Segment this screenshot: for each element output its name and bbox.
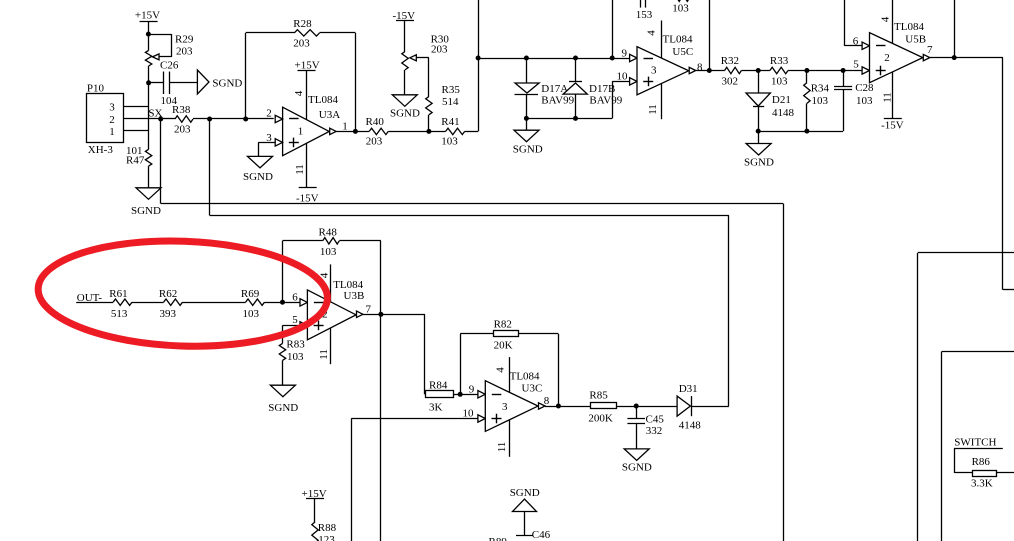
- pin 5 arrow: [300, 322, 307, 329]
- resistor R35: [426, 84, 461, 115]
- svg-text:R86: R86: [972, 456, 991, 468]
- wire pin11: [294, 143, 307, 187]
- svg-text:123: 123: [318, 534, 335, 541]
- svg-text:R84: R84: [429, 379, 448, 391]
- resistor R38: [172, 104, 193, 135]
- svg-text:11: 11: [647, 104, 659, 115]
- node C45 top: [634, 404, 639, 409]
- svg-text:R61: R61: [109, 288, 127, 300]
- svg-text:R40: R40: [366, 116, 385, 128]
- wire: [336, 131, 369, 133]
- resistor R84: [426, 379, 454, 413]
- wire R28 feedback left: [246, 33, 295, 120]
- wire U3B out down: [380, 314, 382, 541]
- node D21 bottom: [756, 129, 761, 134]
- resistor R33: [770, 55, 789, 88]
- node D17B bottom: [573, 116, 578, 121]
- svg-text:11: 11: [882, 92, 894, 103]
- wire: [404, 21, 406, 52]
- svg-text:2: 2: [884, 52, 890, 64]
- svg-text:4: 4: [646, 30, 658, 36]
- svg-text:SGND: SGND: [513, 144, 543, 156]
- wire: [363, 314, 425, 316]
- power +15V (R29 top): [135, 9, 160, 21]
- svg-text:4148: 4148: [679, 420, 702, 432]
- svg-text:7: 7: [927, 44, 933, 56]
- wire pin4 stub: [319, 264, 331, 302]
- wire: [741, 70, 770, 72]
- wire pin1: [124, 130, 149, 132]
- wire: [954, 448, 1003, 473]
- resistor R88: [312, 522, 337, 541]
- svg-text:R88: R88: [318, 522, 337, 534]
- svg-text:U5B: U5B: [905, 34, 926, 46]
- wire: [806, 71, 808, 132]
- pin 5 label: [853, 58, 859, 70]
- node rail junction: [476, 56, 481, 61]
- wire: [148, 66, 150, 149]
- wire pin4: [293, 71, 307, 120]
- svg-text:1: 1: [342, 120, 348, 132]
- svg-text:SGND: SGND: [622, 461, 652, 473]
- svg-text:R89: R89: [489, 536, 508, 541]
- svg-text:103: 103: [672, 2, 689, 14]
- wire R82 left: [460, 334, 493, 395]
- pin 5 arrow: [862, 67, 869, 74]
- pin 6 label: [292, 292, 298, 304]
- node D17B top: [573, 56, 578, 61]
- node C26 junction: [146, 80, 151, 85]
- wire: [282, 360, 284, 385]
- block boundary A: [918, 253, 1014, 541]
- svg-text:103: 103: [441, 136, 458, 148]
- wire pin3 to gnd: [258, 142, 275, 156]
- op-amp U3B: [307, 279, 364, 340]
- wire: [161, 118, 175, 120]
- capacitor C45: [627, 414, 664, 438]
- resistor R41: [441, 116, 464, 148]
- svg-text:203: 203: [366, 136, 383, 148]
- wire pin2: [124, 118, 161, 120]
- capacitor C26: [160, 60, 179, 107]
- node U3B out junction: [378, 312, 383, 317]
- block boundary B: [942, 352, 1014, 541]
- wire net down: [783, 204, 785, 541]
- wire: [428, 115, 430, 132]
- resistor R82: [494, 318, 519, 351]
- wire to R84: [425, 314, 427, 394]
- node U5B out junction: [952, 55, 957, 60]
- wire D17A: [526, 58, 528, 83]
- node U5C out junction: [707, 68, 712, 73]
- svg-text:153: 153: [636, 9, 653, 21]
- node U3C in junction: [458, 392, 463, 397]
- pin 6 arrow: [300, 299, 307, 306]
- power +15V (R88): [302, 488, 327, 500]
- svg-text:2: 2: [266, 108, 272, 120]
- svg-text:9: 9: [469, 384, 475, 396]
- wire: [193, 118, 274, 120]
- resistor R86: [971, 456, 997, 490]
- pin 10 arrow: [478, 415, 485, 422]
- wire: [169, 82, 197, 84]
- svg-text:103: 103: [243, 308, 260, 320]
- svg-text:4: 4: [293, 90, 305, 96]
- ground SGND (R83): [268, 385, 298, 414]
- potentiometer R30 wiper arrow: [410, 55, 417, 61]
- node SX: [148, 107, 163, 121]
- svg-text:SGND: SGND: [243, 171, 273, 183]
- wire: [149, 82, 164, 84]
- pin 10 label: [463, 408, 475, 420]
- svg-text:103: 103: [812, 95, 829, 107]
- svg-text:R82: R82: [494, 318, 512, 330]
- wire: [478, 0, 480, 131]
- svg-text:5: 5: [853, 58, 859, 70]
- wire: [148, 166, 150, 188]
- svg-text:C26: C26: [160, 60, 179, 72]
- resistor R62: [159, 288, 183, 320]
- svg-text:3K: 3K: [429, 402, 443, 414]
- wire pin11 stub: [318, 328, 331, 365]
- svg-text:8: 8: [697, 62, 703, 74]
- svg-text:11: 11: [294, 164, 306, 175]
- svg-text:203: 203: [293, 37, 310, 49]
- svg-text:3: 3: [502, 401, 508, 413]
- svg-text:SGND: SGND: [390, 107, 420, 119]
- power -15V (U5B): [881, 119, 904, 132]
- svg-text:103: 103: [287, 351, 304, 363]
- svg-text:1: 1: [109, 126, 115, 138]
- pin 10 label: [617, 71, 629, 83]
- node rail top junction: [610, 56, 615, 61]
- svg-text:TL084: TL084: [663, 33, 693, 45]
- node D21 top: [756, 68, 761, 73]
- svg-text:U3C: U3C: [522, 382, 543, 394]
- resistor R85: [588, 390, 616, 425]
- svg-text:514: 514: [442, 96, 459, 108]
- diode D17A: [515, 83, 575, 107]
- node U3A in junction: [243, 117, 248, 122]
- svg-text:SGND: SGND: [744, 157, 774, 169]
- connector P10: [87, 83, 124, 157]
- diode D21: [746, 93, 795, 119]
- resistor R69: [241, 288, 265, 320]
- svg-text:R47: R47: [126, 155, 145, 167]
- svg-text:TL084: TL084: [894, 21, 924, 33]
- svg-text:R29: R29: [175, 34, 194, 46]
- svg-text:11: 11: [496, 442, 508, 453]
- output arrow U3B: [357, 304, 372, 318]
- svg-text:4: 4: [495, 367, 507, 373]
- svg-text:R48: R48: [319, 226, 338, 238]
- wire: [388, 131, 445, 133]
- svg-text:5: 5: [292, 314, 298, 326]
- resistor 103 (cut): [672, 0, 689, 14]
- svg-text:SGND: SGND: [268, 402, 298, 414]
- node C28 top: [841, 68, 846, 73]
- svg-text:6: 6: [292, 292, 298, 304]
- wire: [265, 302, 301, 304]
- pin 9 arrow: [630, 54, 637, 61]
- svg-text:8: 8: [544, 395, 550, 407]
- svg-text:3: 3: [109, 101, 115, 113]
- wire: [545, 406, 591, 408]
- ground SGND (C45): [622, 449, 652, 473]
- wire: [843, 71, 845, 132]
- svg-text:SWITCH: SWITCH: [954, 437, 996, 449]
- resistor R28: [293, 18, 319, 49]
- wire R82 right: [518, 334, 558, 407]
- svg-text:10: 10: [463, 408, 475, 420]
- potentiometer R29: [145, 34, 193, 67]
- ground SGND (D17): [513, 130, 543, 156]
- svg-text:SX: SX: [148, 107, 162, 119]
- svg-text:R28: R28: [293, 18, 312, 30]
- svg-text:D31: D31: [679, 383, 698, 395]
- wire: [696, 70, 725, 72]
- wire to top: [954, 0, 956, 58]
- op-amp U5C: [637, 33, 693, 95]
- potentiometer R29 wiper arrow: [153, 54, 160, 60]
- node R29 top junction: [146, 32, 151, 37]
- svg-text:P10: P10: [87, 83, 105, 95]
- pin 9 label: [622, 48, 628, 60]
- pin 5 label: [292, 314, 298, 326]
- resistor R47: [126, 145, 152, 167]
- diode D31: [677, 383, 701, 432]
- power +15V (U3A pin4): [295, 59, 320, 71]
- wire pin4: [646, 21, 662, 59]
- wire pin11: [647, 84, 662, 120]
- wire R28 feedback right: [320, 33, 356, 132]
- svg-text:R38: R38: [172, 104, 191, 116]
- capacitor C46 (cut): [516, 529, 551, 541]
- wire clamp rail: [526, 81, 629, 118]
- output arrow U3C: [539, 395, 550, 409]
- power -15V (R30): [393, 10, 416, 22]
- svg-text:10: 10: [617, 71, 629, 83]
- resistor R32: [721, 55, 742, 88]
- wire: [404, 70, 406, 95]
- wire: [314, 498, 316, 522]
- wire: [758, 107, 760, 144]
- wire net OUTLOOP1: [161, 119, 784, 204]
- svg-text:9: 9: [622, 48, 628, 60]
- resistor R40: [366, 116, 389, 148]
- wire D17B: [575, 58, 577, 82]
- svg-text:D17B: D17B: [589, 83, 615, 95]
- node D17A bottom: [524, 116, 529, 121]
- resistor R89 (cut): [489, 536, 508, 541]
- capacitor 153 (cut): [636, 0, 653, 21]
- pin 3 arrow: [275, 139, 282, 146]
- ground SGND (R30): [390, 95, 420, 120]
- wire wiper: [416, 58, 429, 97]
- svg-text:R34: R34: [811, 83, 830, 95]
- ground SGND (U3A +in): [243, 156, 273, 183]
- diode D17B: [563, 82, 623, 107]
- wire D21: [758, 71, 760, 94]
- pin 9 label: [469, 384, 475, 396]
- wire pin11 stub: [496, 420, 510, 457]
- svg-text:203: 203: [176, 45, 193, 57]
- svg-text:332: 332: [646, 425, 663, 437]
- svg-text:3: 3: [651, 64, 657, 76]
- pin 10 arrow: [630, 78, 637, 85]
- ground SGND (C26): [197, 70, 242, 94]
- svg-text:R32: R32: [721, 55, 739, 67]
- wire: [930, 57, 1003, 59]
- svg-text:6: 6: [853, 36, 859, 48]
- wire: [76, 302, 113, 304]
- node D17A top: [524, 56, 529, 61]
- wire from top: [709, 0, 711, 71]
- node R34 top: [804, 68, 809, 73]
- node R38 out junction: [207, 117, 212, 122]
- wire to right edge: [1003, 58, 1014, 290]
- svg-text:2: 2: [109, 114, 115, 126]
- resistor R48: [319, 226, 340, 257]
- wire pin6: [844, 0, 862, 48]
- resistor R61: [109, 288, 132, 320]
- svg-text:R83: R83: [286, 338, 305, 350]
- wire pin4: [880, 0, 893, 44]
- red highlight ellipse: [36, 236, 329, 351]
- wire: [149, 34, 172, 57]
- output arrow U5B: [923, 44, 933, 61]
- op-amp U5B: [870, 21, 927, 83]
- svg-text:20K: 20K: [494, 340, 513, 352]
- svg-text:200K: 200K: [588, 413, 613, 425]
- svg-text:203: 203: [174, 123, 191, 135]
- svg-text:R69: R69: [241, 288, 260, 300]
- wire pin10: [351, 419, 478, 541]
- op-amp U3A: [266, 94, 340, 156]
- svg-text:11: 11: [318, 349, 330, 360]
- svg-text:302: 302: [722, 76, 739, 88]
- wire: [183, 302, 246, 304]
- wire: [616, 406, 677, 408]
- wire R48 feedback right: [339, 241, 381, 315]
- ground SGND (R47): [131, 188, 161, 217]
- svg-text:TL084: TL084: [333, 279, 363, 291]
- output arrow U5C: [689, 62, 703, 74]
- svg-text:BAV99: BAV99: [541, 94, 574, 106]
- svg-text:SGND: SGND: [212, 77, 242, 89]
- svg-text:TL084: TL084: [510, 371, 540, 383]
- resistor R34: [804, 83, 830, 108]
- wire: [132, 302, 164, 304]
- wire pin3: [124, 106, 149, 108]
- node U3B in junction: [280, 300, 285, 305]
- wire: [997, 472, 1014, 474]
- ground SGND (D21): [744, 144, 774, 169]
- svg-text:203: 203: [431, 43, 448, 55]
- svg-text:3.3K: 3.3K: [971, 477, 993, 489]
- potentiometer R30: [402, 34, 450, 70]
- svg-text:BAV99: BAV99: [589, 94, 622, 106]
- wire R48 feedback left: [283, 241, 323, 303]
- svg-text:-15V: -15V: [296, 192, 319, 204]
- wire pin4 stub: [495, 357, 510, 392]
- svg-text:R35: R35: [442, 84, 461, 96]
- wire from top: [612, 0, 614, 58]
- svg-text:1: 1: [298, 125, 304, 137]
- output arrow U3A: [330, 120, 348, 134]
- svg-text:U5C: U5C: [672, 46, 693, 58]
- power -15V (U3A pin11): [296, 188, 319, 205]
- wire: [692, 215, 729, 406]
- svg-text:4148: 4148: [772, 107, 795, 119]
- svg-text:103: 103: [771, 76, 788, 88]
- svg-text:393: 393: [160, 308, 177, 320]
- wire pin5 to R83: [283, 325, 301, 343]
- pin 6 arrow: [862, 42, 869, 49]
- capacitor C28: [834, 82, 874, 107]
- svg-text:TL084: TL084: [308, 94, 338, 106]
- wire: [465, 131, 478, 133]
- wire: [454, 394, 479, 396]
- svg-text:C46: C46: [532, 529, 551, 541]
- svg-text:D21: D21: [772, 94, 791, 106]
- pin 9 arrow: [478, 391, 485, 398]
- svg-text:U3A: U3A: [319, 109, 340, 121]
- svg-text:R62: R62: [159, 288, 177, 300]
- wire clamp rail 2: [758, 131, 843, 133]
- net label SWITCH: [954, 437, 996, 449]
- wire U5C -in rail: [478, 58, 630, 60]
- svg-text:R33: R33: [770, 55, 789, 67]
- wire: [575, 94, 577, 118]
- svg-text:XH-3: XH-3: [88, 144, 114, 156]
- wire net OUTLOOP2: [210, 119, 729, 216]
- wire pin11: [882, 72, 894, 119]
- ground SGND (C46): [510, 487, 540, 512]
- node U3C out junction: [556, 404, 561, 409]
- wire: [524, 512, 526, 536]
- svg-text:+15V: +15V: [295, 59, 320, 71]
- svg-text:C28: C28: [855, 82, 874, 94]
- svg-text:103: 103: [856, 95, 873, 107]
- wire: [148, 21, 150, 50]
- svg-text:4: 4: [880, 16, 892, 22]
- pin 2 arrow: [275, 115, 282, 122]
- svg-text:103: 103: [320, 246, 337, 258]
- net label OUT-: [77, 292, 103, 304]
- wire: [636, 406, 638, 449]
- svg-text:+15V: +15V: [135, 9, 160, 21]
- wire: [526, 94, 528, 130]
- node U3A out junction: [353, 129, 358, 134]
- svg-text:513: 513: [111, 308, 128, 320]
- svg-text:SGND: SGND: [510, 487, 540, 499]
- svg-text:C45: C45: [646, 414, 665, 426]
- svg-text:U3B: U3B: [344, 290, 365, 302]
- svg-text:-15V: -15V: [881, 120, 904, 132]
- wire: [788, 70, 862, 72]
- svg-text:R41: R41: [441, 116, 459, 128]
- op-amp U3C: [485, 371, 542, 432]
- svg-text:R85: R85: [589, 390, 608, 402]
- svg-text:SGND: SGND: [131, 205, 161, 217]
- resistor R83: [279, 338, 305, 363]
- node R34 bottom: [804, 129, 809, 134]
- node R35 junction: [426, 129, 431, 134]
